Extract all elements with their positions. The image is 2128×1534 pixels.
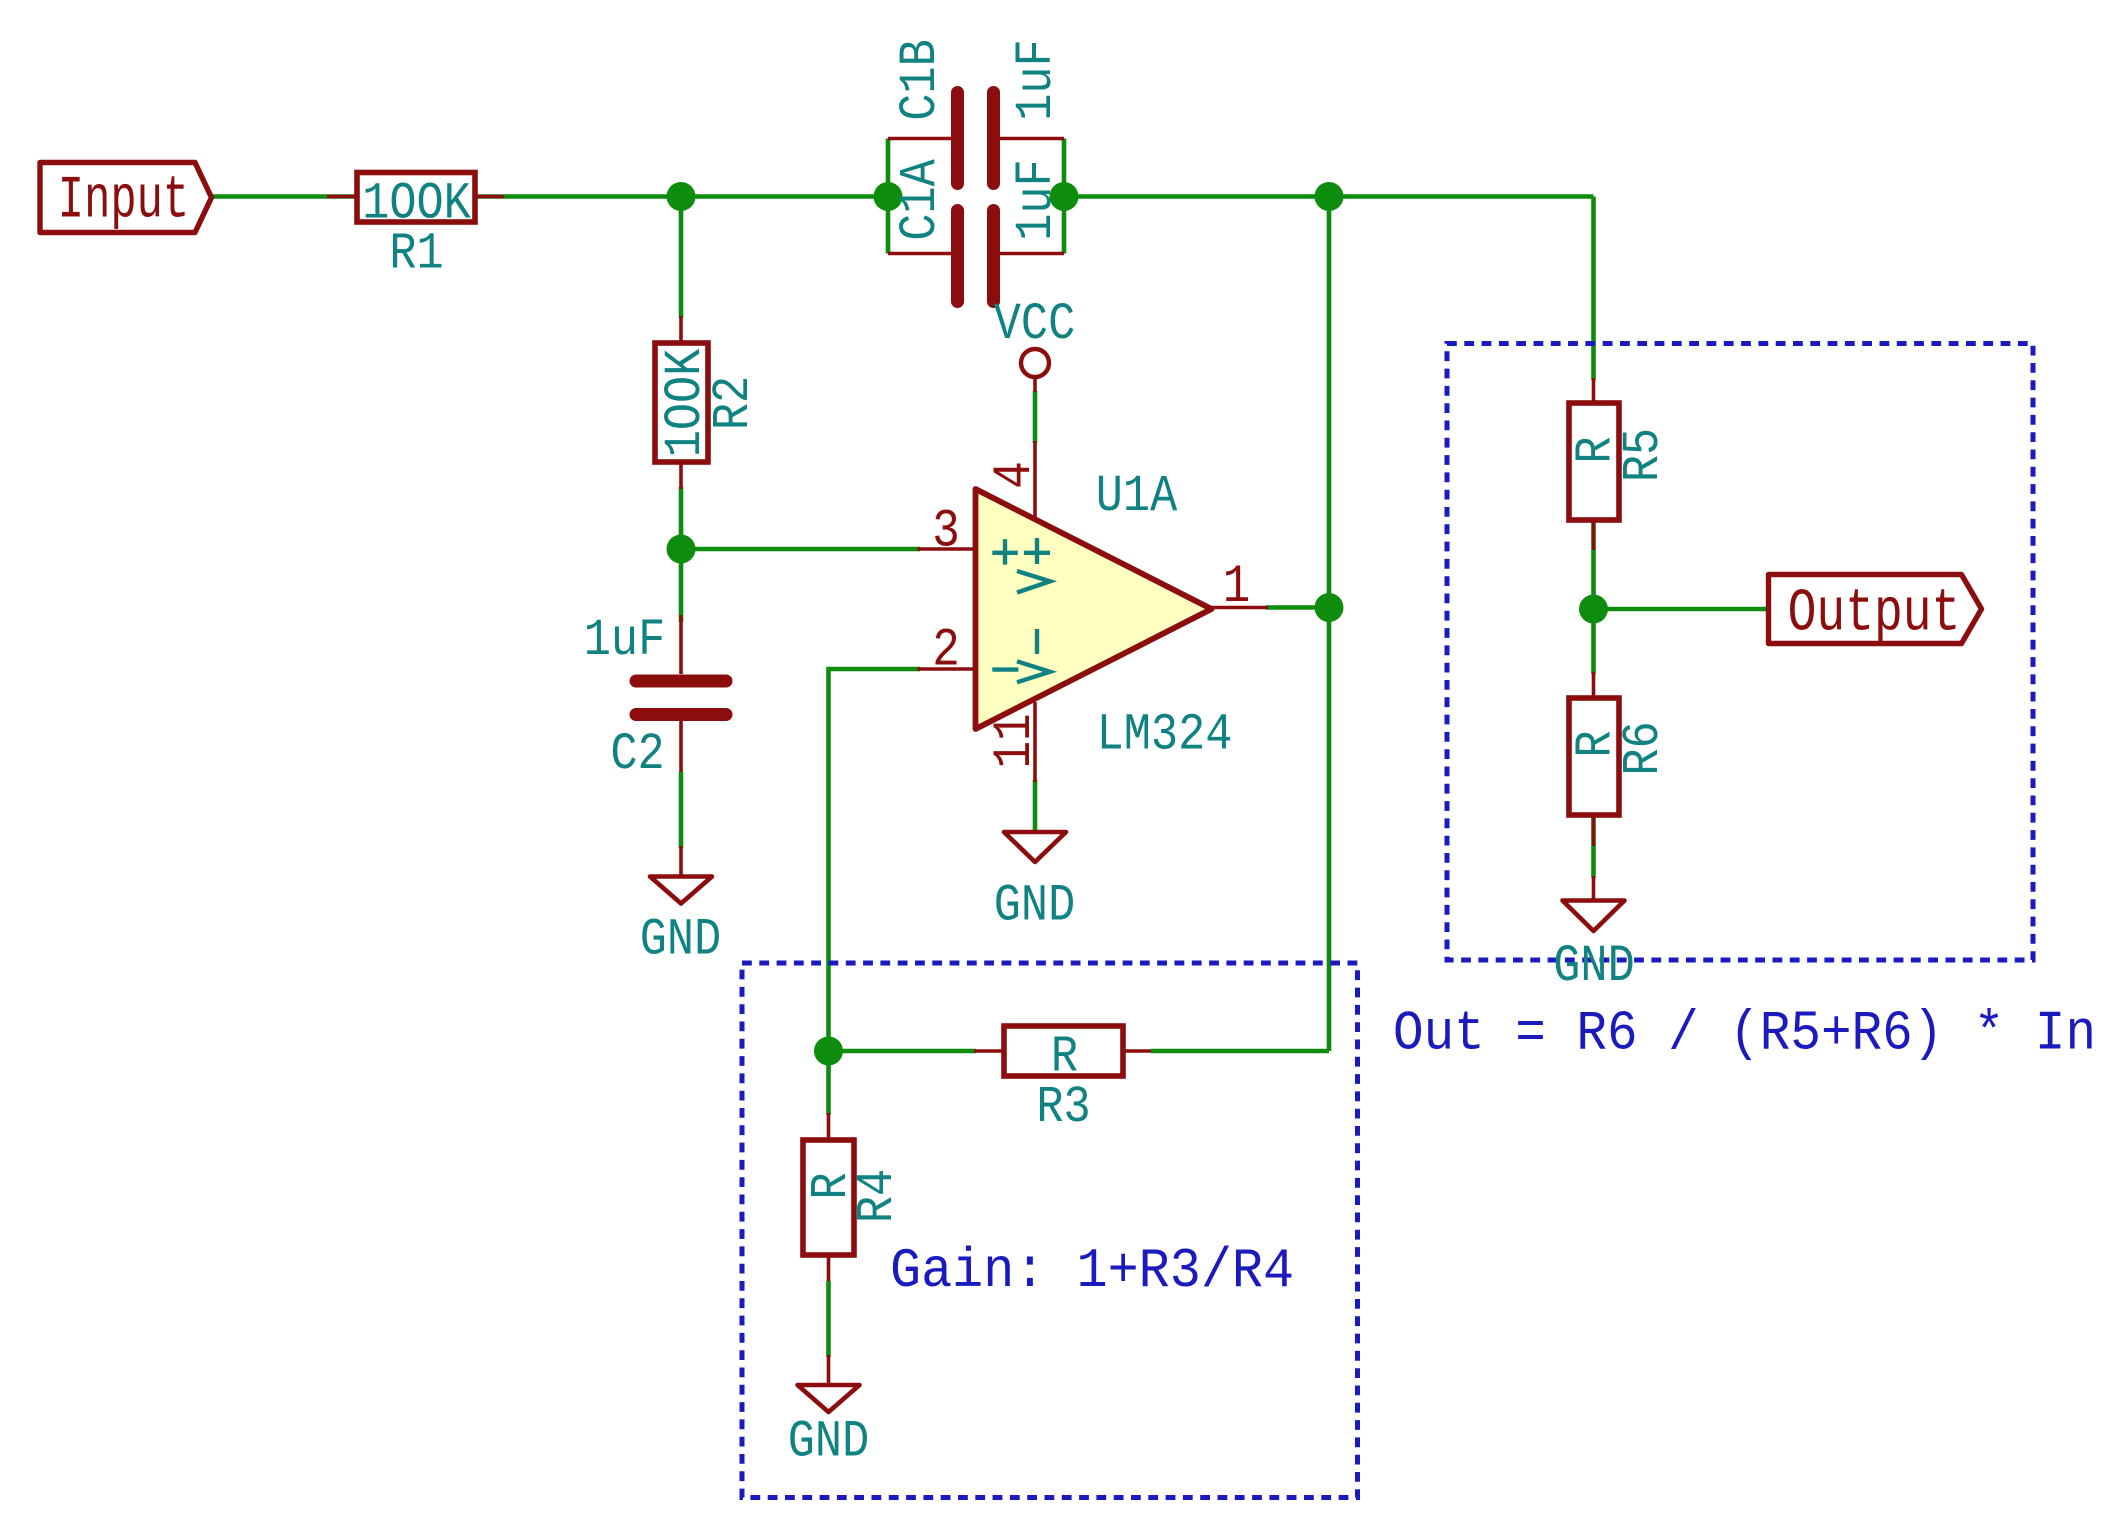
svg-text:C1A: C1A bbox=[890, 159, 950, 241]
svg-text:4: 4 bbox=[985, 461, 1046, 489]
svg-text:LM324: LM324 bbox=[1097, 705, 1233, 765]
svg-text:VCC: VCC bbox=[994, 294, 1075, 354]
svg-text:R6: R6 bbox=[1613, 721, 1673, 775]
svg-text:Gain: 1+R3/R4: Gain: 1+R3/R4 bbox=[890, 1240, 1294, 1303]
svg-text:R2: R2 bbox=[703, 376, 763, 430]
svg-text:R5: R5 bbox=[1613, 428, 1673, 482]
svg-text:2: 2 bbox=[932, 620, 960, 681]
svg-text:R3: R3 bbox=[1036, 1077, 1090, 1137]
svg-text:Input: Input bbox=[58, 166, 189, 235]
svg-text:1uF: 1uF bbox=[584, 610, 665, 670]
svg-text:R4: R4 bbox=[847, 1169, 907, 1223]
svg-text:GND: GND bbox=[788, 1412, 869, 1472]
svg-text:Out = R6 / (R5+R6) * In: Out = R6 / (R5+R6) * In bbox=[1393, 1002, 2096, 1066]
svg-text:11: 11 bbox=[985, 713, 1046, 768]
svg-text:1uF: 1uF bbox=[1006, 159, 1066, 240]
svg-text:R1: R1 bbox=[389, 224, 443, 284]
svg-text:GND: GND bbox=[640, 910, 721, 970]
svg-text:GND: GND bbox=[994, 876, 1075, 936]
svg-text:C2: C2 bbox=[610, 724, 664, 784]
svg-text:3: 3 bbox=[932, 501, 960, 562]
svg-text:GND: GND bbox=[1553, 936, 1634, 996]
svg-text:Output: Output bbox=[1788, 581, 1961, 648]
svg-text:1: 1 bbox=[1223, 557, 1251, 618]
svg-text:C1B: C1B bbox=[890, 39, 950, 120]
svg-text:U1A: U1A bbox=[1096, 466, 1178, 526]
svg-text:1uF: 1uF bbox=[1006, 39, 1066, 120]
